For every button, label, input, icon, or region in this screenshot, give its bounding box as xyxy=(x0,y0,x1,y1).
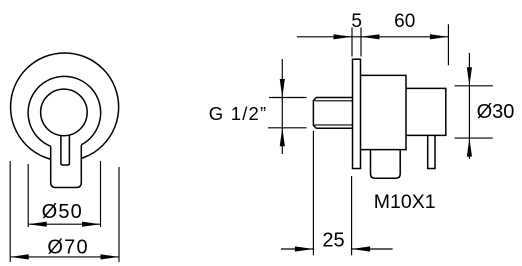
svg-text:Ø50: Ø50 xyxy=(42,201,83,223)
svg-text:G 1/2”: G 1/2” xyxy=(209,103,268,124)
svg-text:25: 25 xyxy=(322,230,344,252)
svg-text:Ø30: Ø30 xyxy=(477,101,515,123)
svg-text:M10X1: M10X1 xyxy=(374,191,436,213)
svg-text:Ø70: Ø70 xyxy=(47,236,88,258)
svg-text:60: 60 xyxy=(394,11,415,32)
svg-text:5: 5 xyxy=(351,11,362,32)
